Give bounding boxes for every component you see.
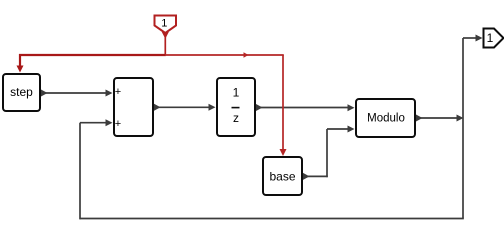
- wire unit delay to modulo: [256, 104, 355, 111]
- svg-text:+: +: [115, 86, 121, 98]
- wire red branch to base: [165, 52, 287, 156]
- svg-text:1: 1: [487, 31, 494, 45]
- unit delay block: [217, 78, 255, 136]
- block step: [3, 74, 40, 111]
- wire junction to outport: [463, 35, 483, 119]
- svg-text:1: 1: [161, 18, 167, 30]
- modulo block: [356, 99, 415, 137]
- inport 1: [155, 16, 177, 34]
- svg-text:1: 1: [233, 86, 240, 100]
- wire red branch to step: [17, 54, 166, 73]
- feedback wire: [80, 118, 464, 219]
- wire base to modulo: [303, 126, 355, 180]
- svg-text:+: +: [115, 118, 121, 130]
- base block: [263, 157, 302, 195]
- wire modulo to junction: [416, 115, 464, 122]
- svg-text:Modulo: Modulo: [367, 113, 405, 125]
- sum block: [114, 78, 153, 136]
- wire step to sum: [41, 90, 113, 97]
- svg-text:step: step: [10, 85, 33, 99]
- svg-text:z: z: [233, 111, 239, 125]
- wire from inport down: [162, 32, 169, 55]
- outport 1: [484, 29, 504, 48]
- svg-text:base: base: [269, 170, 295, 184]
- wire sum to unit delay: [154, 104, 216, 111]
